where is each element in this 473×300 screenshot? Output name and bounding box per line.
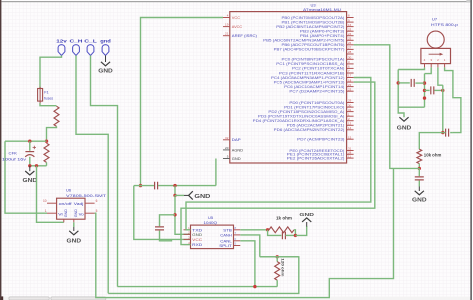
svg-text:GND: GND bbox=[299, 212, 314, 217]
wire CFK bottom lead bbox=[29, 157, 31, 166]
wire net TXCAN U3.PC4 to U5.TXD bbox=[186, 78, 371, 230]
U5 pin stub CANL bbox=[234, 240, 241, 242]
wire 5V net to U3 VCC bbox=[141, 18, 224, 186]
svg-text:20: 20 bbox=[225, 146, 229, 150]
svg-text:U7: U7 bbox=[432, 17, 438, 22]
canvas top border bbox=[1, 1, 470, 2]
svg-text:32: 32 bbox=[225, 136, 229, 140]
wire cap C7 to ground bbox=[418, 181, 420, 187]
svg-text:PD2 (PCINT18PSCIN2OC1AMISO_A): PD2 (PCINT18PSCIN2OC1AMISO_A) bbox=[268, 110, 344, 114]
svg-text:AGND: AGND bbox=[232, 148, 244, 152]
U5 pin stub TXD bbox=[184, 229, 191, 231]
U3 right port pin labels numbers and stubs PB PC PD PE bbox=[253, 14, 354, 161]
junction sensor cap C5b left bbox=[423, 89, 426, 92]
svg-text:1: 1 bbox=[45, 209, 47, 213]
wire U5.STB to RC bbox=[240, 229, 267, 231]
wire 120 ohm top lead bbox=[276, 257, 278, 262]
wire fuse to resistor R1 bbox=[40, 103, 57, 106]
junction CFK top bbox=[28, 140, 31, 143]
wire U7 pin1 down bbox=[445, 67, 461, 132]
svg-text:CANH: CANH bbox=[220, 232, 232, 237]
svg-text:fuses: fuses bbox=[44, 97, 53, 101]
wire C6 left lead bbox=[443, 132, 446, 134]
svg-text:GND: GND bbox=[412, 198, 427, 204]
svg-text:10: 10 bbox=[43, 199, 47, 203]
svg-text:PD1 (PCINT17PSCIN0CLKO): PD1 (PCINT17PSCIN0CLKO) bbox=[284, 105, 344, 109]
resistor R4 120 ohm termination bbox=[275, 262, 280, 281]
resistor R2 (bleeder) bbox=[44, 143, 49, 162]
regulator U6 body bbox=[57, 198, 85, 219]
svg-text:VCC: VCC bbox=[232, 16, 241, 20]
capacitor CFK (polarized 100uF) bbox=[25, 146, 36, 157]
sensor U7 body bbox=[421, 48, 451, 63]
svg-text:U5: U5 bbox=[208, 215, 214, 220]
wire sensor gnd rail bbox=[398, 70, 404, 118]
svg-text:C_L: C_L bbox=[84, 39, 97, 44]
U6 bottom gnd stub left bbox=[63, 219, 65, 222]
svg-text:PB1 (PCINT1MOSIPSCOUT2B): PB1 (PCINT1MOSIPSCOUT2B) bbox=[282, 20, 345, 24]
wire 1k right lead bbox=[294, 230, 295, 236]
wire 5V net U6 Vo to sensor divider bbox=[95, 168, 394, 297]
junction STB RC left bbox=[266, 228, 269, 231]
capacitor C7 (divider filter) bbox=[415, 177, 424, 180]
wire 5V branch to U5 VCC bbox=[134, 186, 191, 240]
U5 pin stub CANH bbox=[234, 234, 241, 236]
svg-text:GND: GND bbox=[397, 126, 412, 132]
ground symbol (pointing up) near 1k bbox=[302, 218, 311, 222]
ground symbol sensor left bbox=[399, 117, 408, 121]
junction gnd chain at cap C2 bbox=[173, 213, 176, 216]
svg-text:PB4 (AMP0+PCINT4): PB4 (AMP0+PCINT4) bbox=[300, 34, 345, 38]
wire net C_L bottom bus bbox=[118, 286, 278, 288]
wire R1 to node A bbox=[47, 126, 57, 139]
svg-text:25: 25 bbox=[348, 37, 352, 41]
capacitor C5b (sensor) bbox=[431, 86, 434, 94]
svg-text:PC6 (ADC10ACMP1PCINT14): PC6 (ADC10ACMP1PCINT14) bbox=[284, 85, 344, 89]
svg-text:HTFS 800-p: HTFS 800-p bbox=[431, 23, 458, 27]
svg-text:23: 23 bbox=[348, 87, 352, 91]
sensor U7 toroid circle bbox=[427, 31, 444, 48]
resistor R1 (series input) bbox=[54, 106, 59, 126]
wire ground rail to regulator gnd pin bbox=[37, 166, 64, 223]
U5 pin stub STB bbox=[234, 229, 241, 231]
wire rail down-left to regulator Vi bbox=[5, 141, 47, 213]
U5 pin stub GND bbox=[184, 233, 191, 235]
wire net C_H vertical bbox=[76, 56, 108, 294]
resistor R5 10k bbox=[417, 149, 422, 163]
wire 120 ohm bottom lead bbox=[276, 280, 278, 286]
svg-text:29: 29 bbox=[348, 99, 352, 103]
svg-text:gnd: gnd bbox=[100, 39, 111, 44]
fuse F1 bbox=[38, 87, 43, 103]
U6 bottom gnd stub right bbox=[73, 219, 75, 222]
svg-text:16: 16 bbox=[348, 23, 352, 27]
wire net C_L vertical bbox=[91, 56, 118, 287]
wire net C_H bottom bus bbox=[108, 257, 299, 294]
wire cap C5b left lead bbox=[425, 89, 430, 91]
wire 10k bottom lead bbox=[418, 164, 420, 169]
svg-text:13: 13 bbox=[348, 122, 352, 126]
svg-text:27: 27 bbox=[348, 46, 352, 50]
wire CFK top lead bbox=[29, 141, 31, 151]
svg-text:Vi: Vi bbox=[58, 213, 63, 217]
svg-text:PB3 (AMP0-PCINT3): PB3 (AMP0-PCINT3) bbox=[300, 30, 345, 34]
capacitor C5a (sensor) bbox=[411, 79, 414, 87]
svg-text:26: 26 bbox=[348, 41, 352, 45]
junction ground branch bbox=[35, 164, 38, 167]
junction CFK bottom bbox=[28, 164, 31, 167]
resistor R3 1k bbox=[269, 227, 294, 233]
svg-text:12v: 12v bbox=[56, 39, 67, 44]
connector pin C_L bbox=[87, 45, 94, 56]
svg-text:PE2 (PCINT26ADC0XTAL2): PE2 (PCINT26ADC0XTAL2) bbox=[287, 156, 345, 160]
svg-text:SPLIT: SPLIT bbox=[219, 243, 232, 248]
wire pin3 rail down bbox=[424, 74, 426, 108]
wire CANH to termination top bbox=[260, 256, 299, 258]
U5 pin stub RXD bbox=[184, 244, 191, 246]
capacitor C2 (U5 decoupling) bbox=[155, 227, 164, 230]
wire cap C5b right lead bbox=[434, 89, 442, 91]
junction RC right bbox=[294, 234, 297, 237]
wire U7 pin2 down bbox=[438, 67, 443, 85]
svg-text:PD0 (PCINT16PSCOUT0A): PD0 (PCINT16PSCOUT0A) bbox=[289, 101, 344, 105]
svg-text:PC2 (PCINT10T0TXCAN): PC2 (PCINT10T0TXCAN) bbox=[292, 67, 344, 71]
svg-text:31: 31 bbox=[348, 108, 352, 112]
wire gnd branch across bbox=[398, 106, 424, 108]
svg-text:23: 23 bbox=[348, 27, 352, 31]
junction 5V at decoupling cap bbox=[139, 184, 142, 187]
svg-text:120 ohm: 120 ohm bbox=[281, 258, 286, 276]
wire gnd pin to ground bbox=[105, 56, 107, 63]
capacitor C1 (U3 decoupling) bbox=[155, 182, 158, 190]
wire RC left vertical bbox=[268, 230, 282, 236]
svg-text:GND: GND bbox=[194, 194, 210, 200]
junction vout node bbox=[441, 131, 444, 134]
svg-text:CFK: CFK bbox=[9, 150, 18, 155]
svg-text:AVCC: AVCC bbox=[232, 25, 243, 29]
junction decoupling right bbox=[173, 184, 176, 187]
wire to side ground symbol bbox=[175, 194, 184, 196]
wire RC right vertical bbox=[285, 234, 295, 236]
U3 pin stub AVCC bbox=[223, 26, 230, 28]
svg-text:100uf 16v: 100uf 16v bbox=[2, 157, 26, 161]
svg-text:10k ohm: 10k ohm bbox=[424, 153, 442, 158]
connector pin gnd bbox=[102, 45, 109, 56]
svg-text:19: 19 bbox=[225, 23, 229, 27]
svg-text:PB0 (PCINT0MISOPSCOUT2A): PB0 (PCINT0MISOPSCOUT2A) bbox=[282, 16, 345, 20]
wire decoupling rail bbox=[134, 185, 154, 187]
wire node A horizontal rail bbox=[5, 140, 47, 142]
wire RC to ground-up symbol bbox=[295, 226, 306, 235]
connector pin 12v bbox=[58, 45, 65, 56]
svg-text:22: 22 bbox=[348, 83, 352, 87]
U5 pin stub VCC bbox=[184, 238, 191, 240]
svg-text:PC4 (ADC8ACMPN3AMP1-PCINT12): PC4 (ADC8ACMPN3AMP1-PCINT12) bbox=[271, 76, 344, 80]
svg-text:14: 14 bbox=[348, 126, 352, 130]
svg-text:PB6 (ADC7PSCOUT1BPCINT6): PB6 (ADC7PSCOUT1BPCINT6) bbox=[282, 43, 345, 47]
svg-text:C_H: C_H bbox=[70, 39, 83, 44]
svg-text:U6: U6 bbox=[66, 188, 72, 193]
wire vout to divider bbox=[419, 133, 443, 150]
window left border bbox=[0, 0, 1, 300]
wire gnd branch down bbox=[174, 186, 176, 196]
ground stem near U5 bbox=[184, 194, 189, 196]
wire cap C2 bottom branch bbox=[160, 231, 172, 241]
svg-text:PD3 (PCINT19TXDTXLINOC0ASSMOSI: PD3 (PCINT19TXDTXLINOC0ASSMOSI_A) bbox=[258, 115, 345, 119]
wire to input ground symbol bbox=[29, 166, 31, 171]
svg-text:GND: GND bbox=[74, 208, 78, 217]
U6 pin stub on/off bbox=[47, 202, 57, 204]
junction CANL on bottom bus bbox=[253, 285, 256, 288]
svg-text:GND: GND bbox=[67, 238, 82, 244]
svg-text:GND: GND bbox=[64, 208, 68, 217]
U3 pin stub AREF (ISRC) bbox=[223, 35, 230, 37]
wire U5.CANL right bbox=[240, 241, 255, 287]
svg-text:PB5 (ADC6INT2ACMPN3AMP2-PCINT5: PB5 (ADC6INT2ACMPN3AMP2-PCINT5) bbox=[263, 39, 344, 43]
wire divider node down to cap C7 bbox=[418, 168, 420, 176]
U3 pin stub VCC bbox=[223, 17, 230, 19]
svg-text:30: 30 bbox=[348, 56, 352, 60]
svg-text:V7805-500-SMT: V7805-500-SMT bbox=[66, 194, 107, 198]
junction node A at R2 top bbox=[45, 140, 48, 143]
U3 pin stub DAP bbox=[223, 139, 230, 141]
IC U5 body bbox=[191, 225, 234, 249]
svg-text:GND: GND bbox=[23, 178, 38, 184]
svg-text:15: 15 bbox=[348, 135, 352, 139]
svg-text:PD4 (PCINT20ADC1RXDRXLINICP1AS: PD4 (PCINT20ADC1RXDRXLINICP1ASCK_A) bbox=[253, 119, 345, 123]
junction vout riser top bbox=[441, 89, 444, 92]
U3 pin stub GND bbox=[223, 158, 230, 160]
wire U6 gnd to ground symbol bbox=[73, 222, 75, 227]
wire cap C2 top branch bbox=[160, 215, 176, 226]
junction CANH at 120 ohm top bbox=[276, 255, 279, 258]
wire decoupling rail right bbox=[158, 185, 216, 187]
svg-text:PB7 (ADC4PSCOUT0BSCKPCINT7): PB7 (ADC4PSCOUT0BSCKPCINT7) bbox=[274, 48, 345, 52]
svg-text:6: 6 bbox=[96, 199, 98, 203]
U6 pin stub Vo bbox=[85, 212, 95, 214]
svg-text:24: 24 bbox=[348, 32, 352, 36]
U7 pin numbers and stubs 4 3 2 1 bbox=[424, 58, 446, 67]
svg-text:Vadj: Vadj bbox=[74, 202, 84, 206]
wire U3 GND pin down bbox=[215, 159, 217, 186]
capacitor C6 (sensor output) bbox=[446, 129, 449, 137]
svg-text:U3: U3 bbox=[311, 2, 317, 7]
svg-text:PD6 (ADC3ACMPN2INT0PCINT22): PD6 (ADC3ACMPN2INT0PCINT22) bbox=[274, 128, 345, 132]
capacitor C4 (parallel with 1k) bbox=[282, 232, 285, 240]
svg-text:17: 17 bbox=[348, 74, 352, 78]
svg-text:RXD: RXD bbox=[192, 242, 202, 247]
wire bottom join CFK-R2 bbox=[30, 165, 47, 167]
wire gnd chain down to U5 bbox=[175, 195, 191, 234]
svg-text:AREF (ISRC): AREF (ISRC) bbox=[232, 34, 257, 38]
ground stem divider bbox=[418, 187, 420, 192]
ground stem under U6 bbox=[73, 227, 75, 231]
wire vout riser bbox=[442, 85, 444, 132]
IC U3 body bbox=[230, 12, 347, 163]
connector pin C_H bbox=[73, 45, 80, 56]
svg-text:30: 30 bbox=[348, 103, 352, 107]
svg-text:F1: F1 bbox=[44, 91, 48, 95]
svg-text:1k ohm: 1k ohm bbox=[276, 216, 292, 221]
ground symbol (side arrow) near U5 bbox=[189, 191, 193, 199]
svg-text:21: 21 bbox=[225, 32, 229, 36]
svg-text:GND: GND bbox=[98, 69, 113, 75]
svg-text:28: 28 bbox=[348, 50, 352, 54]
svg-text:PC0 (PCINT8INT3PSCOUT1A): PC0 (PCINT8INT3PSCOUT1A) bbox=[282, 58, 345, 62]
svg-text:18: 18 bbox=[348, 78, 352, 82]
svg-text:PC1 (PCINT9PSCIN1OC1BSS_A): PC1 (PCINT9PSCIN1OC1BSS_A) bbox=[276, 62, 344, 66]
junction divider node bbox=[418, 167, 421, 170]
svg-text:PB2 (ADC5INT1ACMPN0PCINT2): PB2 (ADC5INT1ACMPN0PCINT2) bbox=[276, 25, 344, 29]
wire U7 pin4 to gnd rail bbox=[398, 67, 424, 69]
wire cap C5a left lead bbox=[398, 82, 410, 84]
ground symbol input filter bbox=[25, 171, 34, 175]
junction sensor cap C5a right bbox=[423, 81, 426, 84]
svg-text:DAP: DAP bbox=[232, 138, 242, 142]
wire U5.CANH right bbox=[240, 235, 259, 257]
svg-text:PC5 (ADC9ACMP3AMP1+PCINT13): PC5 (ADC9ACMP3AMP1+PCINT13) bbox=[274, 80, 345, 84]
window right border bbox=[466, 0, 473, 300]
wire cap C5a right lead bbox=[415, 82, 424, 84]
ground symbol under gnd connector bbox=[101, 62, 110, 66]
U6 pin stub Vadj bbox=[85, 202, 95, 204]
svg-text:GND: GND bbox=[232, 157, 241, 161]
wire net RXCAN U3.PC5 to U5.RXD bbox=[181, 82, 375, 245]
junction sensor gnd branch bbox=[423, 96, 426, 99]
svg-text:PD7 (ACMP0PCINT23): PD7 (ACMP0PCINT23) bbox=[297, 138, 344, 142]
ground symbol divider bbox=[415, 191, 424, 195]
wire R2 bottom lead bbox=[46, 162, 48, 165]
sensor U7 current arrow bbox=[429, 53, 444, 56]
ground symbol under U6 bbox=[69, 231, 78, 235]
svg-text:PC7 (D2AAMP2+PCINT15): PC7 (D2AAMP2+PCINT15) bbox=[289, 90, 344, 94]
svg-text:11: 11 bbox=[348, 154, 351, 158]
svg-text:PD5 (ADC2ACMP2PCINT21): PD5 (ADC2ACMP2PCINT21) bbox=[287, 124, 345, 128]
svg-text:Vo: Vo bbox=[79, 213, 84, 217]
svg-text:on/off: on/off bbox=[59, 202, 73, 206]
svg-text:PC3 (PCINT11T1RXCANICP1B): PC3 (PCINT11T1RXCANICP1B) bbox=[279, 71, 345, 75]
wire divider node to ADC feed bbox=[354, 45, 420, 169]
U6 pin stub Vi bbox=[47, 212, 57, 214]
junction gnd symbol branch bbox=[173, 194, 176, 197]
U3 pin stub AGND bbox=[223, 149, 230, 151]
bottom tab bar bbox=[0, 296, 470, 300]
wire C6 right lead bbox=[450, 132, 453, 134]
wire U7 pin3 down bbox=[425, 67, 432, 73]
wire 12v pin to fuse bbox=[40, 56, 62, 89]
junction gnd rail at cap C5a bbox=[397, 81, 400, 84]
ground stem near 1k bbox=[306, 222, 308, 227]
U5 pin stub SPLIT bbox=[234, 245, 241, 247]
